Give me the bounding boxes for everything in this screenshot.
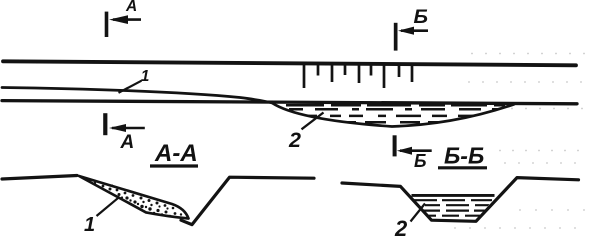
svg-text:А-А: А-А bbox=[154, 140, 198, 167]
svg-text:А: А bbox=[120, 132, 135, 153]
svg-text:Б: Б bbox=[414, 151, 427, 171]
svg-text:Б-Б: Б-Б bbox=[444, 143, 484, 169]
svg-text:2: 2 bbox=[288, 128, 301, 152]
svg-text:2: 2 bbox=[394, 216, 408, 237]
svg-text:А: А bbox=[125, 0, 137, 15]
svg-text:Б: Б bbox=[414, 7, 429, 28]
svg-text:1: 1 bbox=[141, 68, 150, 85]
svg-text:1: 1 bbox=[84, 214, 95, 236]
